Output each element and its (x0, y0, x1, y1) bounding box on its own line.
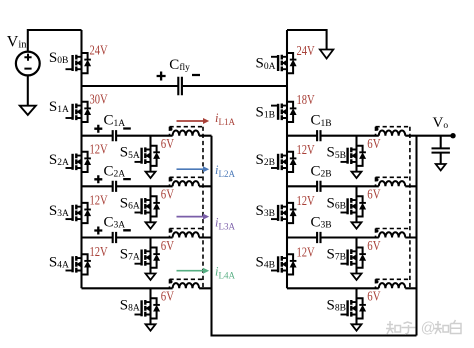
svg-text:6V: 6V (367, 137, 380, 152)
svg-text:6V: 6V (367, 188, 380, 203)
svg-text:24V: 24V (297, 44, 315, 59)
svg-text:6V: 6V (161, 290, 174, 305)
svg-text:6V: 6V (161, 188, 174, 203)
svg-text:24V: 24V (90, 44, 108, 59)
svg-text:18V: 18V (297, 93, 315, 108)
svg-text:12V: 12V (90, 142, 108, 157)
svg-text:6V: 6V (367, 290, 380, 305)
svg-text:@: @ (421, 321, 436, 337)
svg-text:30V: 30V (90, 92, 108, 107)
svg-text:6V: 6V (367, 239, 380, 254)
svg-text:12V: 12V (297, 194, 315, 209)
svg-text:12V: 12V (297, 246, 315, 261)
svg-text:12V: 12V (90, 245, 108, 260)
svg-text:6V: 6V (161, 239, 174, 254)
svg-text:12V: 12V (90, 193, 108, 208)
svg-text:6V: 6V (161, 137, 174, 152)
svg-text:12V: 12V (297, 143, 315, 158)
